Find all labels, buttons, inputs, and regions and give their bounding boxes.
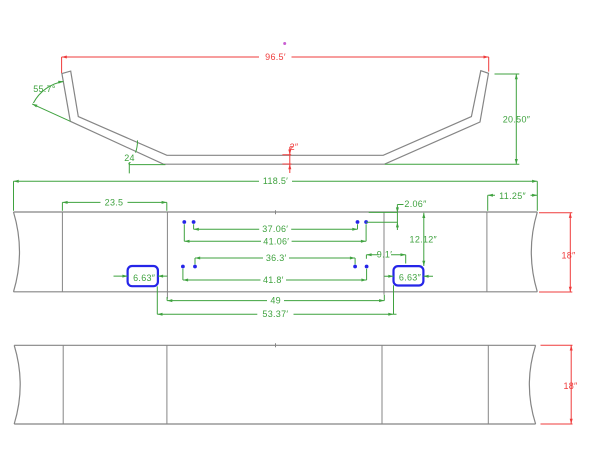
- angle dimension 55.7 degrees: [31, 80, 70, 121]
- dimension 18 bottom view (red, height): [541, 345, 579, 424]
- dimension 11.25 (green): [488, 191, 538, 211]
- dimension 41.06 (green, outer holes row 1): [184, 224, 366, 246]
- hole slot left (blue rounded): [128, 266, 158, 286]
- svg-text:49: 49: [270, 296, 281, 306]
- dimension 96.5 (red, top width): [62, 52, 489, 73]
- dimension 12.12 (green): [410, 213, 438, 266]
- note dot (magenta): [283, 42, 286, 45]
- dimension 53.37 (green): [157, 285, 396, 319]
- dimension 9.1 (green): [366, 250, 405, 264]
- svg-text:41.8′: 41.8′: [263, 275, 284, 285]
- bottom view seam 2: [166, 345, 168, 424]
- dimension 20.50 (green, profile height): [385, 74, 531, 164]
- angle dimension 24: [122, 140, 165, 173]
- dimension 18 middle view (red, height): [539, 213, 576, 292]
- svg-text:18″: 18″: [561, 251, 576, 261]
- svg-text:12.12″: 12.12″: [410, 234, 438, 244]
- svg-text:6.63″: 6.63″: [133, 273, 156, 283]
- svg-text:24: 24: [124, 153, 135, 163]
- bottom view seam 1: [62, 345, 64, 424]
- svg-text:96.5′: 96.5′: [265, 52, 286, 62]
- svg-text:118.5′: 118.5′: [263, 176, 288, 186]
- center section edge right: [383, 212, 385, 295]
- front view body outline: [14, 210, 538, 292]
- panel seam left: [61, 212, 63, 292]
- bottom view body outline: [14, 343, 535, 424]
- dimension 49 (green): [167, 295, 384, 306]
- svg-text:55.7°: 55.7°: [33, 84, 56, 94]
- dimension 6.63 left (green): [114, 273, 168, 283]
- svg-text:53.37′: 53.37′: [262, 309, 288, 319]
- panel seam right: [486, 212, 488, 292]
- svg-text:18″: 18″: [563, 381, 578, 391]
- svg-text:41.06′: 41.06′: [263, 236, 289, 246]
- svg-text:11.25″: 11.25″: [499, 191, 526, 201]
- dimension 23.5 (green): [62, 197, 166, 210]
- dimension 6.63 right (green): [384, 272, 433, 282]
- mounting holes row 1 (blue): [182, 220, 368, 224]
- dimension 37.06 (green, inner holes row 1): [194, 224, 358, 234]
- svg-text:9.1′: 9.1′: [377, 250, 392, 260]
- dimension 41.8 (green, outer holes row 2): [183, 269, 367, 285]
- hole slot right (blue rounded): [394, 266, 424, 285]
- svg-text:23.5: 23.5: [105, 197, 124, 207]
- svg-text:20.50″: 20.50″: [503, 115, 531, 125]
- svg-text:2.06″: 2.06″: [404, 199, 427, 209]
- bumper profile outline: [62, 71, 489, 165]
- dimension 118.5 (green, overall width): [14, 176, 538, 211]
- bottom view seam 3: [381, 345, 383, 424]
- svg-text:36.3′: 36.3′: [266, 253, 287, 263]
- dimension 2.06 (green): [366, 199, 427, 230]
- svg-text:37.06′: 37.06′: [262, 224, 288, 234]
- dimension 2 (red, material thickness): [282, 142, 299, 173]
- svg-text:6.63″: 6.63″: [399, 272, 422, 282]
- center section edge left: [166, 212, 168, 299]
- dimension 36.3 (green, inner holes row 2): [195, 253, 355, 264]
- svg-text:2″: 2″: [290, 142, 299, 152]
- bottom view seam 4: [487, 345, 489, 424]
- mounting holes row 2 (blue): [181, 265, 369, 269]
